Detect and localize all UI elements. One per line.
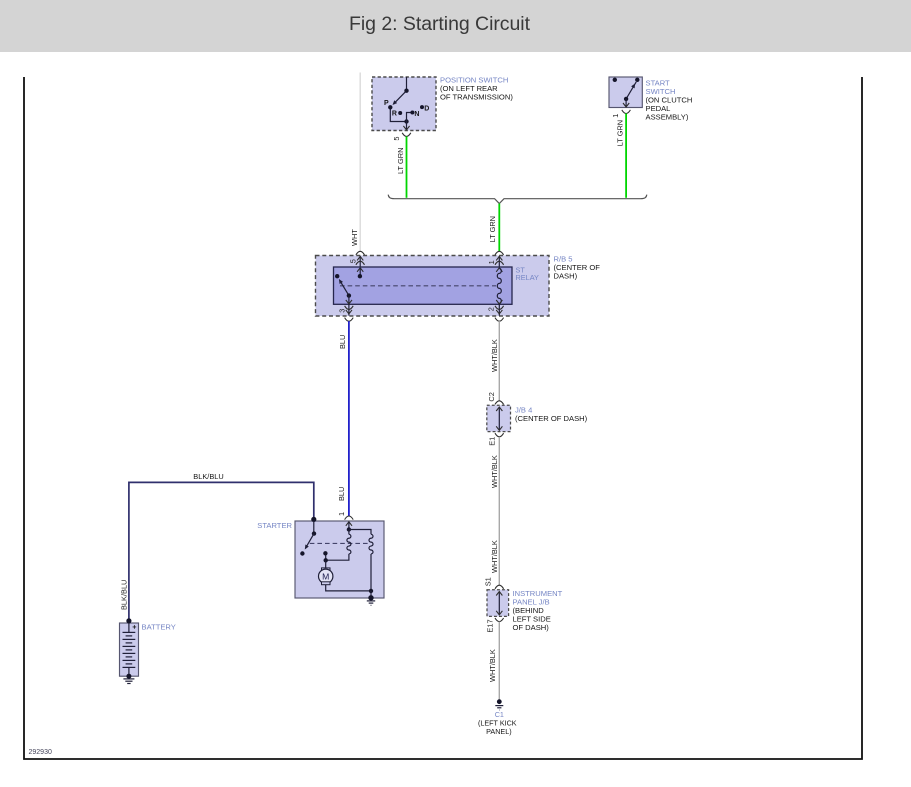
wire WHT (to relay pin 5) <box>350 73 360 252</box>
svg-text:OF DASH): OF DASH) <box>513 623 550 632</box>
svg-text:5: 5 <box>392 136 401 140</box>
svg-text:2: 2 <box>487 307 496 311</box>
starter mechanical linkage (dashed) <box>310 542 371 544</box>
battery name text <box>142 622 176 631</box>
svg-text:LT GRN: LT GRN <box>488 216 497 242</box>
figure number 292930 <box>29 749 52 756</box>
svg-text:R: R <box>392 111 397 118</box>
svg-text:Fig 2: Starting Circuit: Fig 2: Starting Circuit <box>349 13 531 35</box>
svg-text:N: N <box>414 111 419 118</box>
svg-text:STARTER: STARTER <box>257 521 292 530</box>
svg-text:1: 1 <box>487 260 496 264</box>
wire LT GRN to relay pin 1 <box>488 204 499 251</box>
svg-text:(ON LEFT REAR: (ON LEFT REAR <box>440 84 498 93</box>
svg-text:PANEL): PANEL) <box>486 727 511 736</box>
instrument panel J/B pin labels S1 E17 <box>483 577 494 632</box>
svg-text:WHT/BLK: WHT/BLK <box>488 649 497 682</box>
wire BLK/BLU battery to starter <box>120 472 314 620</box>
J/B 4 name text <box>515 405 588 423</box>
svg-text:OF TRANSMISSION): OF TRANSMISSION) <box>440 93 513 102</box>
diagram frame <box>24 77 862 759</box>
position switch internals <box>388 77 424 130</box>
title bar <box>0 0 911 52</box>
starter solenoid coils <box>323 522 373 591</box>
position switch contact labels P R N D <box>384 100 429 118</box>
instrument panel J/B name text <box>513 589 563 632</box>
relay block R/B 5 (dashed box) <box>316 256 550 317</box>
svg-text:WHT/BLK: WHT/BLK <box>490 339 499 372</box>
relay coil <box>496 268 502 304</box>
R/B 5 name text <box>554 254 601 280</box>
svg-text:BATTERY: BATTERY <box>142 622 176 631</box>
wire LT GRN from start switch <box>615 113 626 197</box>
svg-text:WHT: WHT <box>350 229 359 246</box>
wire BLU relay to starter <box>337 321 349 516</box>
wire WHT/BLK J/B 4 to instrument panel J/B <box>490 437 500 585</box>
position switch connector pin 5 <box>392 133 411 141</box>
svg-text:BLK/BLU: BLK/BLU <box>193 472 223 481</box>
starter connector pin 1 <box>337 512 353 520</box>
start switch connector pin 1 <box>611 110 631 118</box>
connector pin 3 at R/B 5 bottom <box>337 304 353 321</box>
svg-text:1: 1 <box>337 512 346 516</box>
svg-text:5: 5 <box>349 259 358 263</box>
ground C1 text <box>478 710 517 736</box>
connector pin 2 at R/B 5 bottom <box>487 304 504 321</box>
wire LT GRN from position switch <box>396 136 406 197</box>
starter (box) <box>295 521 384 598</box>
svg-text:C2: C2 <box>487 392 496 401</box>
svg-text:1: 1 <box>611 114 620 118</box>
start switch internals <box>613 78 640 107</box>
svg-text:D: D <box>424 106 429 113</box>
svg-text:E1: E1 <box>487 437 496 446</box>
svg-text:POSITION SWITCH: POSITION SWITCH <box>440 75 508 84</box>
svg-text:BLU: BLU <box>337 487 346 501</box>
svg-text:DASH): DASH) <box>554 271 578 280</box>
svg-text:J/B 4: J/B 4 <box>515 405 532 414</box>
svg-text:RELAY: RELAY <box>516 273 540 282</box>
starter motor M <box>319 560 374 593</box>
svg-text:WHT/BLK: WHT/BLK <box>490 455 499 488</box>
relay switch contacts <box>335 268 363 304</box>
svg-text:LT GRN: LT GRN <box>615 120 624 146</box>
svg-text:(CENTER OF DASH): (CENTER OF DASH) <box>515 414 588 423</box>
svg-text:BLU: BLU <box>338 335 347 349</box>
wire WHT/BLK to ground C1 <box>488 622 500 700</box>
position switch name text <box>440 75 513 101</box>
starter name text <box>257 521 292 530</box>
svg-text:BLK/BLU: BLK/BLU <box>120 580 129 610</box>
starter ground <box>367 591 375 605</box>
connector pin 1 at R/B 5 top <box>487 251 503 267</box>
start switch (box) <box>609 77 642 108</box>
svg-text:292930: 292930 <box>29 749 52 756</box>
ground C1 <box>495 699 503 710</box>
svg-text:3: 3 <box>337 309 346 313</box>
relay mechanical linkage (dashed) <box>340 285 496 287</box>
junction brace bus <box>388 195 646 204</box>
battery <box>120 618 139 683</box>
start switch name text <box>646 79 693 122</box>
svg-text:E17: E17 <box>486 619 495 632</box>
svg-text:P: P <box>384 100 389 107</box>
junction block J/B 4 (dashed box) <box>487 401 511 437</box>
svg-text:ASSEMBLY): ASSEMBLY) <box>646 113 689 122</box>
svg-text:WHT/BLK: WHT/BLK <box>490 540 499 573</box>
starter solenoid switch <box>300 517 316 556</box>
ST RELAY name text <box>516 265 540 282</box>
connector pin 5 at R/B 5 top <box>349 251 365 267</box>
svg-text:M: M <box>322 571 329 581</box>
position switch PNP (dashed box) <box>372 77 436 131</box>
svg-text:S1: S1 <box>483 577 492 586</box>
instrument panel J/B (dashed box) <box>487 585 509 621</box>
svg-text:LT GRN: LT GRN <box>396 148 405 174</box>
relay ST RELAY (inner box) <box>334 267 513 304</box>
wire WHT/BLK relay to J/B 4 <box>490 321 500 401</box>
J/B 4 pin labels C2 E1 <box>487 392 497 446</box>
